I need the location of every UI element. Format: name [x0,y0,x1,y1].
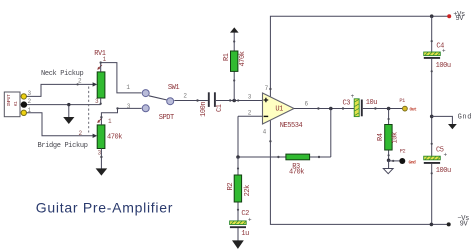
junction +V rail / C4 [430,14,434,18]
svg-text:9V: 9V [460,221,469,229]
wire C4 branch [431,17,433,52]
op-amp U1 triangle [263,93,295,124]
pin dot op-amp pin4 [269,140,271,142]
pin dot SW1 pin2 wire [196,99,198,101]
capacitor C1 right plate [214,92,216,107]
svg-text:1u: 1u [241,230,249,238]
wire K1 pin1 to RV1B wiper [27,113,95,136]
svg-text:R1: R1 [223,53,231,61]
pin dot RV1A wiper [77,83,79,85]
pin dot C1 right [229,99,231,101]
svg-text:Gnd: Gnd [409,160,417,166]
junction output node R4 [387,107,391,111]
pad pin 1 of K1 [21,110,26,115]
pin dot op-amp pin6 [317,107,319,109]
pin dot C3 left [342,107,344,109]
capacitor C4 positive plate [424,52,441,56]
svg-text:Out: Out [410,107,418,113]
pin dot R4 top [388,118,390,120]
svg-text:SPDT: SPDT [159,114,174,122]
wire C2 to ground [237,228,239,241]
potentiometer RV1 gang B body [97,125,105,149]
svg-text:470k: 470k [107,134,122,142]
svg-text:9V: 9V [456,15,465,23]
potentiometer RV1 gang A body [97,72,105,98]
junction -V rail / C5 [430,223,434,227]
pin dot RV1A top [100,61,102,63]
switch SW1 pin3 circle [142,105,149,112]
wire R4 node to ground [388,160,390,169]
svg-text:100n: 100n [200,102,208,117]
wire RV1B bottom to ground [100,149,102,169]
pad P1 [403,106,408,111]
junction inverting node [236,155,240,159]
op-amp plus sign [264,98,269,103]
connector K1 body [4,92,20,117]
capacitor C5 negative plate [424,162,440,164]
pin dot C5 bottom [431,172,433,174]
pin dot R3 right [318,156,320,158]
svg-text:R4: R4 [377,133,385,141]
svg-text:22k: 22k [244,185,252,197]
gang dashed link RV1 [88,87,90,133]
wire SW1 pin2 to C1 [174,100,208,102]
svg-text:P1: P1 [399,98,405,104]
svg-text:Bridge Pickup: Bridge Pickup [38,142,88,150]
svg-text:C1: C1 [216,104,224,112]
switch SW1 pin1 circle [142,90,149,97]
wire RV1B top to SW1 pin3 [101,108,141,125]
wire op-amp output [294,108,354,110]
svg-text:RV1: RV1 [94,50,106,58]
pin dot RV1B bottom [100,156,102,158]
wire stub ground common [68,105,70,118]
RV1A adjust arrow [98,65,102,69]
wire R1 branch [233,32,235,101]
wire R2 branch [237,157,239,221]
wire K1 pin2 common [27,104,101,106]
ground symbol (input common) [63,117,74,124]
ground symbol (RV1B) [96,168,108,175]
pin dot C3 right [374,107,376,109]
svg-text:470k: 470k [289,169,304,177]
pin dot R4 bottom [388,154,390,156]
wire feedback horizontal R3 [238,156,331,158]
pin dot R1 bottom [233,79,235,81]
supply terminal dot +Vs [447,14,451,18]
junction R4 bottom node [387,159,391,163]
supply arrow +V (R1) [230,27,239,32]
svg-text:Guitar Pre-Amplifier: Guitar Pre-Amplifier [36,199,173,215]
pad pin 3 of K1 [21,94,26,99]
junction R1/C1 [232,99,236,103]
junction output/feedback [329,107,333,111]
svg-text:NE5534: NE5534 [280,122,303,130]
svg-text:10u: 10u [366,99,378,107]
switch SW1 pin2 circle [167,98,174,105]
wire C1 to op-amp pin3 [216,100,263,102]
pin dot C5 top [431,143,433,145]
svg-text:INPUT: INPUT [6,94,12,106]
svg-text:K1: K1 [13,101,19,106]
svg-text:100u: 100u [436,62,451,70]
capacitor C3 positive plate [354,99,359,117]
wire op-amp pin2 to node [238,116,263,157]
svg-text:470k: 470k [239,51,247,66]
wire pin4 to -V rail [270,120,448,224]
pad pin 2 of K1 [21,101,27,107]
svg-text:C3: C3 [343,99,351,107]
pin dot R1 top [233,40,235,42]
wire C5 to -V rail [431,164,433,225]
switch SW1 arm [149,96,167,100]
junction common-ground [67,103,70,106]
RV1A wiper arrowhead [93,82,98,86]
pin dot SW1 pin3 [116,107,118,109]
pin dot C4 top [431,40,433,42]
resistor R1 body [231,51,238,71]
capacitor C3 negative plate [361,100,363,117]
resistor R3 body [286,154,310,160]
wire pin7 to +V rail [270,16,449,97]
wire K1 pin3 to RV1A wiper [27,84,94,96]
wire C3 to P1 [363,108,402,110]
RV1B wiper arrowhead [93,134,98,138]
supply terminal dot -Vs [447,222,451,226]
wire R4 branch [388,109,390,161]
capacitor C2 positive plate [230,221,247,225]
junction mid rail node [430,115,434,119]
capacitor C4 negative plate [424,57,440,59]
svg-text:R2: R2 [227,183,235,191]
pin dot C4 bottom [431,70,433,72]
pin dot R3 left [277,156,279,158]
pin dot P2 wire [392,160,394,162]
pin dot RV1A bottom [100,103,102,105]
resistor R4 body [385,125,392,151]
op-amp minus sign [264,115,269,117]
pin dot op-amp pin7 [269,88,271,90]
wire to pad P2 [389,160,400,162]
pad P2 [399,158,405,164]
svg-text:100u: 100u [436,167,451,175]
resistor R2 body [234,175,241,202]
ground symbol (C2) [232,240,244,249]
svg-text:10k: 10k [391,132,399,144]
wire RV1A top to SW1 pin1 [101,63,142,93]
ground symbol (mid rail) [448,124,457,129]
wire feedback down [330,109,332,158]
capacitor C1 left plate [208,92,210,107]
capacitor C2 negative plate [230,226,246,228]
svg-text:Gnd: Gnd [458,114,472,122]
ground symbol open (R4/P2) [383,169,393,174]
pin dot R2 top [237,167,239,169]
wire mid node to ground [432,116,453,124]
capacitor C5 positive plate [424,156,441,160]
svg-text:P2: P2 [400,148,406,154]
pin dot RV1B top [100,116,102,118]
svg-text:U1: U1 [275,106,283,114]
wire RV1A bottom stub [100,98,102,105]
svg-text:SW1: SW1 [168,84,180,92]
wire C4 to mid node [431,59,433,156]
pin dot R2 bottom [237,209,239,211]
RV1B adjust arrow [98,118,102,122]
